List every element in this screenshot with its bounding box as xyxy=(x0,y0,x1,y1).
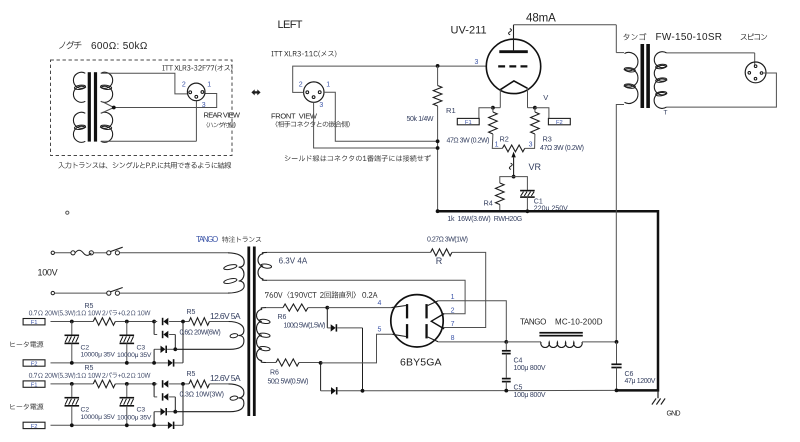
svg-text:0.27Ω 3W(1W): 0.27Ω 3W(1W) xyxy=(427,237,468,244)
wire switch to primary top xyxy=(120,252,229,254)
svg-text:R2: R2 xyxy=(500,134,509,143)
label LEFT xyxy=(278,19,303,31)
label R3 xyxy=(543,134,552,143)
svg-text:R3: R3 xyxy=(543,134,552,143)
svg-text:47μ 1200V: 47μ 1200V xyxy=(625,378,656,385)
svg-text:R5: R5 xyxy=(85,365,94,372)
label 50ohm 5W xyxy=(268,379,309,386)
svg-text:10000μ 35V: 10000μ 35V xyxy=(117,352,152,359)
ground bus xyxy=(438,211,658,390)
label 760V winding xyxy=(265,291,378,298)
OPT core xyxy=(641,44,650,108)
switch S1a xyxy=(107,247,123,255)
label R5 output (heater 2) xyxy=(187,371,196,378)
svg-text:50k 1/4W: 50k 1/4W xyxy=(407,116,434,123)
input transformer T1 secondary winding xyxy=(100,72,112,142)
wire XLR pin1 ground xyxy=(324,92,438,141)
node filament right junction xyxy=(533,106,537,110)
label GND xyxy=(667,411,681,418)
terminal F2 heater (heater 1) xyxy=(23,360,45,368)
label R5 series (heater 2) xyxy=(85,365,94,372)
svg-text:47Ω 3W (0.2W): 47Ω 3W (0.2W) xyxy=(540,145,584,152)
wire XLR pin2 to grid line xyxy=(293,66,438,92)
svg-text:FW-150-10SR: FW-150-10SR xyxy=(656,32,723,43)
switch S1b xyxy=(107,288,123,296)
wire XLR pin3 shield xyxy=(314,102,438,148)
svg-text:48mA: 48mA xyxy=(526,12,556,24)
wire 6.3V top tail xyxy=(267,251,431,253)
label heater psu (heater 2) xyxy=(11,404,44,410)
wire 6.3V top to pin7 xyxy=(443,252,486,327)
ground symbol xyxy=(652,390,665,404)
power transformer HV winding xyxy=(256,308,270,363)
label R4 xyxy=(484,199,493,208)
diode D4 bridge (heater 2) xyxy=(154,384,183,429)
svg-text:R4: R4 xyxy=(484,199,493,208)
svg-text:V: V xyxy=(543,93,548,102)
svg-text:10000μ 35V: 10000μ 35V xyxy=(117,415,152,422)
connector speakon xyxy=(745,62,766,83)
tube UV-211 envelope xyxy=(486,39,540,93)
caption shield wire note xyxy=(285,155,431,162)
label R5 values (heater 1) xyxy=(29,310,150,316)
wire secondary top to XLR pin2 xyxy=(101,73,188,94)
svg-text:VR: VR xyxy=(529,162,542,172)
diode D2 bridge (heater 1) xyxy=(154,322,175,350)
capacitor C5 xyxy=(502,379,511,391)
svg-text:C3: C3 xyxy=(137,344,146,351)
svg-text:C6: C6 xyxy=(625,371,634,378)
svg-text:R5: R5 xyxy=(187,309,196,316)
diode D3 bridge (heater 2) xyxy=(154,408,175,425)
heater winding (heater 1) xyxy=(175,322,244,350)
label TANGO custom transformer xyxy=(196,235,261,244)
tube 6BY5GA envelope xyxy=(391,295,443,347)
node bridge AC1 (heater 2) xyxy=(181,382,185,386)
connector XLR3-32F77 rear view xyxy=(187,83,205,101)
svg-text:F1: F1 xyxy=(465,120,472,126)
svg-text:R6: R6 xyxy=(278,314,287,321)
wire node B down to B- bus xyxy=(320,363,322,391)
svg-text:FRONT VIEW: FRONT VIEW xyxy=(271,111,318,120)
svg-text:10000μ 35V: 10000μ 35V xyxy=(81,414,116,421)
wire heater - line (heater 2) xyxy=(51,424,155,426)
svg-text:R6: R6 xyxy=(270,370,279,377)
resistor R5 series (heater 1) xyxy=(93,318,115,326)
label ITT XLR3-11C xyxy=(272,51,337,58)
wire OPT B+ drop xyxy=(616,25,624,53)
capacitor C1 xyxy=(520,191,535,212)
terminal AC hot xyxy=(51,251,54,254)
node C1 foot xyxy=(526,209,530,213)
wire node B to tube pin5 xyxy=(321,334,393,363)
node bridge - bottom (heater 2) xyxy=(152,423,156,427)
node center-tap junction xyxy=(112,106,116,110)
label 47ohm 3W left xyxy=(447,138,490,145)
B- bus xyxy=(321,389,617,391)
label R6 top xyxy=(278,314,287,321)
wire node A to tube pin4 xyxy=(327,307,391,309)
power transformer 6.3V winding xyxy=(258,252,272,280)
svg-text:3: 3 xyxy=(529,142,533,149)
resistor R 0.27ohm xyxy=(431,249,452,256)
label UV-211 xyxy=(451,25,487,37)
svg-text:TANGO: TANGO xyxy=(520,318,546,327)
wire fuse to switch xyxy=(93,252,106,254)
wire to terminal F1 xyxy=(479,108,493,119)
resistor R5 output (heater 2) xyxy=(189,380,209,388)
node choke output xyxy=(615,340,619,344)
input transformer T1 primary winding xyxy=(73,72,85,142)
wire R6-50 to node B xyxy=(299,362,321,364)
symbol measure squiggle plate xyxy=(509,29,512,35)
wire pin1 to B+ node xyxy=(438,301,506,342)
label TANGO MC-10-200D xyxy=(520,318,603,327)
diode D3 bridge (heater 1) xyxy=(154,346,175,363)
svg-text:1k 16W(3.6W) RWH20G: 1k 16W(3.6W) RWH20G xyxy=(447,216,522,223)
svg-text:UV-211: UV-211 xyxy=(451,25,487,37)
node bridge AC2 (heater 1) xyxy=(173,347,177,351)
pot terminal labels xyxy=(495,142,533,149)
svg-text:5: 5 xyxy=(378,327,382,334)
label R2 xyxy=(500,134,509,143)
label 48mA xyxy=(526,12,556,24)
node B+ (C4 top) xyxy=(504,340,508,344)
tube 6BY5GA plates xyxy=(406,304,428,338)
svg-text:4: 4 xyxy=(378,300,382,307)
svg-text:T: T xyxy=(664,110,668,117)
label C2 heater (heater 2) xyxy=(81,407,116,421)
svg-text:2: 2 xyxy=(182,82,186,89)
svg-text:GND: GND xyxy=(667,411,681,418)
potentiometer VR wiper xyxy=(511,152,515,177)
power transformer core xyxy=(247,247,255,417)
label 6.3V 4A xyxy=(279,257,308,266)
input transformer dashed enclosure xyxy=(51,60,233,156)
node C6 foot xyxy=(615,389,619,393)
label Noguchi 600ohm:50kohm xyxy=(59,41,148,52)
capacitor C3 heater (heater 1) xyxy=(120,322,135,363)
svg-text:600Ω: 50kΩ: 600Ω: 50kΩ xyxy=(91,41,148,52)
label C6 xyxy=(625,371,656,385)
node C3 bottom (heater 2) xyxy=(125,423,129,427)
svg-text:R5: R5 xyxy=(85,303,94,310)
symbol measure squiggle wiper xyxy=(509,163,512,169)
svg-text:F2: F2 xyxy=(556,120,563,126)
resistor R2 xyxy=(489,108,503,149)
resistor R1 xyxy=(433,66,442,211)
svg-text:100μ 800V: 100μ 800V xyxy=(514,392,546,399)
choke MC-10-200D winding xyxy=(506,342,616,348)
node bridge - bottom (heater 1) xyxy=(152,361,156,365)
svg-text:47Ω 3W (0.2W): 47Ω 3W (0.2W) xyxy=(447,138,490,145)
svg-text:C1: C1 xyxy=(534,199,543,206)
node C3 top (heater 1) xyxy=(125,320,129,324)
terminal AC neutral xyxy=(51,291,54,294)
node D1/D2 junction xyxy=(361,389,365,393)
svg-text:LEFT: LEFT xyxy=(278,19,303,31)
diode D4 bridge (heater 1) xyxy=(154,322,183,367)
capacitor C2 heater (heater 1) xyxy=(65,322,80,363)
capacitor C4 xyxy=(502,342,511,378)
label R5 values (heater 2) xyxy=(29,372,150,378)
svg-text:8: 8 xyxy=(451,335,455,342)
pin label 5 xyxy=(378,327,382,334)
node bridge + top (heater 1) xyxy=(152,320,156,324)
pin labels 1 2 7 8 xyxy=(451,294,455,342)
wire 6.3V bottom to pin2 xyxy=(267,280,465,314)
diode D1 bridge (heater 2) xyxy=(154,380,183,387)
label dropper value (heater 1) xyxy=(180,329,221,336)
wire grid line to tube pin3 xyxy=(438,65,487,67)
svg-text:3: 3 xyxy=(202,102,206,109)
svg-text:100μ 800V: 100μ 800V xyxy=(514,365,546,372)
capacitor C6 xyxy=(611,342,621,391)
label R5 series (heater 1) xyxy=(85,303,94,310)
wire AC hot xyxy=(55,252,72,254)
svg-text:100V: 100V xyxy=(38,268,58,278)
wire heater + line (heater 1) xyxy=(51,321,229,323)
label R4 value xyxy=(447,216,522,223)
wire AC neutral xyxy=(55,292,107,294)
svg-text:R5: R5 xyxy=(187,371,196,378)
wire to terminal F2 xyxy=(535,108,549,119)
symbol left-right arrow xyxy=(251,89,260,95)
node bridge AC1 (heater 1) xyxy=(181,320,185,324)
svg-text:C2: C2 xyxy=(81,407,90,414)
stray terminal mark xyxy=(66,211,69,214)
svg-text:REAR VIEW: REAR VIEW xyxy=(204,111,241,120)
pin labels XLR male xyxy=(182,82,211,109)
tube UV-211 filament xyxy=(500,81,527,90)
diode D2 HV xyxy=(331,387,337,394)
label C3 heater (heater 1) xyxy=(117,344,152,359)
wire filament legs xyxy=(493,88,535,107)
resistor R5 output (heater 1) xyxy=(189,318,209,326)
resistor R3 xyxy=(525,108,540,149)
svg-text:2: 2 xyxy=(451,307,455,314)
resistor R6 100ohm xyxy=(283,304,308,311)
potentiometer VR track xyxy=(502,145,524,152)
label 12.6V 5A (heater 2) xyxy=(210,373,241,383)
heater winding (heater 2) xyxy=(175,384,244,412)
svg-text:1: 1 xyxy=(326,81,330,88)
tube 6BY5GA internal leads xyxy=(392,301,439,342)
input transformer T1 core xyxy=(88,72,97,141)
label ITT XLR3-32F77 xyxy=(163,65,233,72)
label REAR VIEW xyxy=(204,111,241,128)
label V measure xyxy=(543,93,548,102)
label R xyxy=(436,256,443,266)
wire R6 to node A xyxy=(308,307,327,309)
svg-text:3: 3 xyxy=(319,102,323,109)
diode D1 HV xyxy=(327,308,362,391)
resistor R6 50ohm xyxy=(276,359,299,366)
svg-text:F2: F2 xyxy=(31,424,38,430)
tube UV-211 grid xyxy=(498,65,528,67)
connector XLR3-11C front view xyxy=(304,82,324,102)
svg-text:2: 2 xyxy=(299,81,303,88)
diode D1 bridge (heater 1) xyxy=(154,318,183,325)
label T tap xyxy=(664,110,668,117)
label 0.27ohm xyxy=(427,237,468,244)
svg-text:3: 3 xyxy=(475,59,479,66)
svg-text:50Ω 5W(0.5W): 50Ω 5W(0.5W) xyxy=(268,379,309,386)
wire secondary bottom to XLR pin3 xyxy=(101,101,197,142)
svg-text:R: R xyxy=(436,256,443,266)
label C5 xyxy=(514,385,546,400)
terminal F1 xyxy=(457,118,479,126)
svg-text:1: 1 xyxy=(451,294,455,301)
label 6BY5GA xyxy=(400,357,442,369)
label C4 xyxy=(514,358,546,373)
fuse mains xyxy=(71,250,94,255)
node bridge AC2 (heater 2) xyxy=(173,410,177,414)
wire heater + line (heater 2) xyxy=(51,383,229,385)
wire wiper branch xyxy=(500,177,528,191)
svg-text:10000μ 35V: 10000μ 35V xyxy=(81,351,116,358)
svg-text:TANGO: TANGO xyxy=(196,235,218,244)
svg-text:6.3V 4A: 6.3V 4A xyxy=(279,257,308,266)
terminal F2 heater (heater 2) xyxy=(23,422,45,430)
svg-text:1: 1 xyxy=(207,82,211,89)
label C3 heater (heater 2) xyxy=(117,407,152,422)
power transformer primary 100V winding xyxy=(223,253,244,293)
label 100ohm 5W xyxy=(284,323,326,330)
OPT secondary winding xyxy=(654,52,667,109)
tube UV-211 plate xyxy=(499,25,528,52)
label 47ohm 3W right xyxy=(540,145,584,152)
wire HV top tail xyxy=(266,307,283,309)
node R1/ground-line junctions xyxy=(436,139,440,213)
OPT primary winding xyxy=(624,52,638,103)
node bridge + top (heater 2) xyxy=(152,382,156,386)
svg-text:F1: F1 xyxy=(31,383,38,389)
node C3 bottom (heater 1) xyxy=(125,361,129,365)
label dropper value (heater 2) xyxy=(180,392,224,399)
resistor R5 series (heater 2) xyxy=(93,380,115,388)
node filament left junction xyxy=(491,106,495,110)
label VR xyxy=(529,162,542,172)
label 100V xyxy=(38,268,58,278)
node wiper junction xyxy=(512,175,516,179)
wire speakon return xyxy=(667,73,777,107)
label speakon xyxy=(741,34,768,40)
node C2 top (heater 1) xyxy=(70,320,74,324)
svg-text:F1: F1 xyxy=(31,320,38,326)
tube 6BY5GA cathode chevron xyxy=(431,314,444,329)
label R6 bottom xyxy=(270,370,279,377)
choke MC-10-200D core xyxy=(539,332,582,337)
diode D2 bridge (heater 2) xyxy=(154,384,175,412)
svg-text:7: 7 xyxy=(451,321,455,328)
svg-text:12.6V 5A: 12.6V 5A xyxy=(210,311,241,321)
label heater psu (heater 1) xyxy=(11,341,44,347)
svg-text:0.6Ω 20W(6W): 0.6Ω 20W(6W) xyxy=(180,329,221,336)
node C3 top (heater 2) xyxy=(125,382,129,386)
wire plate to OPT xyxy=(514,24,617,26)
pin label 3 grid xyxy=(475,59,479,66)
capacitor C2 heater (heater 2) xyxy=(65,384,80,425)
svg-text:100Ω 5W(1.5W): 100Ω 5W(1.5W) xyxy=(284,323,326,330)
capacitor C3 heater (heater 2) xyxy=(120,384,135,425)
wire switch to primary bottom xyxy=(120,292,229,294)
svg-text:1: 1 xyxy=(495,142,499,149)
svg-text:F2: F2 xyxy=(31,361,38,367)
label R5 output (heater 1) xyxy=(187,309,196,316)
pin label 4 xyxy=(378,300,382,307)
svg-text:C2: C2 xyxy=(81,344,90,351)
label 50k 1/4W xyxy=(407,116,434,123)
label C2 heater (heater 1) xyxy=(81,344,116,358)
svg-text:C3: C3 xyxy=(137,407,146,414)
resistor R4 xyxy=(496,183,505,211)
label 12.6V 5A (heater 1) xyxy=(210,311,241,321)
node grid/R1 junction xyxy=(436,64,440,68)
node C2 top (heater 2) xyxy=(70,382,74,386)
node C2 bottom (heater 2) xyxy=(70,423,74,427)
wire HV bottom tail xyxy=(266,362,276,364)
terminal F1 heater (heater 1) xyxy=(23,319,45,327)
node C5 foot xyxy=(504,389,508,393)
svg-text:MC-10-200D: MC-10-200D xyxy=(555,318,603,327)
wire heater - line (heater 1) xyxy=(51,362,155,364)
pin labels XLR female xyxy=(299,81,331,109)
label R1 xyxy=(446,106,456,115)
node A HV top xyxy=(325,306,329,310)
svg-text:R1: R1 xyxy=(446,106,456,115)
node B HV bottom xyxy=(319,361,323,365)
label Tango FW-150-10SR xyxy=(623,32,722,43)
svg-text:C4: C4 xyxy=(514,358,523,365)
wire secondary center-tap xyxy=(101,94,217,114)
svg-text:C5: C5 xyxy=(514,385,523,392)
svg-text:12.6V 5A: 12.6V 5A xyxy=(210,373,241,383)
caption input transformer wiring note xyxy=(58,162,231,169)
terminal F2 xyxy=(548,118,570,126)
terminal F1 heater (heater 2) xyxy=(23,381,45,389)
wire pin8 to B+ node xyxy=(438,341,506,343)
wire OPT primary bottom to B+ xyxy=(616,105,624,342)
node C2 bottom (heater 1) xyxy=(70,361,74,365)
label FRONT VIEW xyxy=(271,111,350,127)
svg-text:0.3Ω 10W(3W): 0.3Ω 10W(3W) xyxy=(180,392,224,399)
svg-text:6BY5GA: 6BY5GA xyxy=(400,357,442,369)
wire secondary top to speakon xyxy=(667,53,755,66)
label C1 xyxy=(534,199,568,213)
